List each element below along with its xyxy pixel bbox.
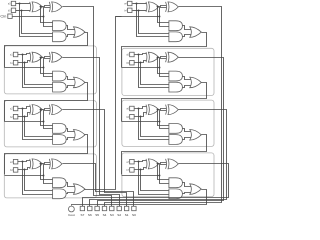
wire B2 to XOR — [18, 113, 31, 117]
output pin S3 — [110, 206, 114, 210]
wire AND2c out to OR — [67, 129, 77, 132]
wire XOR3a out to XOR3b — [41, 163, 51, 164]
output pin S6 — [88, 206, 92, 210]
AND gate U5c — [169, 71, 183, 81]
wire XOR1a out to XOR1b — [41, 57, 51, 58]
wire AND4c out to OR — [183, 26, 193, 30]
wire A7 to XOR — [135, 161, 147, 162]
wire XOR3a out branch to AND1 — [41, 164, 54, 180]
XOR gate U1a (A xor B) — [29, 52, 32, 62]
wire carry-in bit3 — [5, 175, 44, 177]
OR gate U3e (carry out) — [74, 184, 86, 195]
XOR gate U3b (sum S3) — [48, 159, 51, 169]
input pin A6 — [130, 106, 135, 111]
OR gate U1e (carry out) — [74, 77, 86, 88]
wire sum S3 bit3 — [63, 164, 134, 207]
wire A3 to XOR — [18, 161, 31, 162]
wire sum S2 bit2 — [63, 110, 127, 207]
wire B3 branch to AND2 — [25, 170, 54, 191]
wire B7 branch to AND2 — [141, 170, 170, 191]
input pin B3 — [13, 168, 18, 173]
output pin S0 — [132, 206, 136, 210]
OR gate U0e (carry out) — [74, 27, 86, 38]
wire AND3c out to OR — [67, 183, 77, 187]
wire carry bit5 to bit6 — [122, 83, 207, 122]
input pin A1 — [13, 52, 18, 57]
wire AND0c out to OR — [67, 26, 77, 30]
wire sum S4 bit4 — [105, 7, 222, 207]
wire carry-in to AND1 — [44, 176, 54, 184]
wire XOR2a out branch to AND1 — [41, 110, 54, 126]
input pin B0 — [11, 8, 15, 12]
wire carry bit4 to bit5 — [122, 33, 207, 68]
wire A2 to XOR — [18, 107, 31, 109]
AND gate U0c — [53, 21, 67, 31]
AND gate U7d — [169, 189, 183, 199]
wire AND7d out to OR — [183, 193, 193, 194]
svg-text:S2: S2 — [117, 213, 121, 217]
wire carry bit0 to bit1 — [5, 33, 88, 68]
input pin A4 — [128, 1, 132, 5]
input pin A3 — [13, 159, 18, 164]
XOR gate U0a (A xor B) — [29, 2, 32, 12]
wire carry-in to AND1 — [160, 176, 170, 184]
wire B3 to XOR — [18, 168, 31, 170]
wire B5 to XOR — [135, 61, 147, 63]
wire sum S6 bit6 — [90, 110, 227, 207]
XOR gate U3a (A xor B) — [29, 159, 32, 169]
input pin B5 — [130, 60, 135, 64]
input pin B7 — [130, 168, 135, 173]
input pin A2 — [13, 106, 18, 111]
input pin B1 — [13, 60, 18, 64]
wire AND4d out to OR — [183, 35, 193, 37]
wire A1 branch to AND2 — [23, 55, 54, 88]
wire carry-in to XOR7b — [160, 165, 167, 176]
wire AND5c out to OR — [183, 77, 193, 80]
wire A6 branch to AND2 — [139, 109, 170, 140]
XOR gate U7b (sum S7) — [165, 159, 168, 169]
wire XOR6a out branch to AND1 — [158, 110, 170, 126]
wire sum S1 bit1 — [63, 58, 120, 207]
wire A5 branch to AND2 — [139, 55, 170, 88]
XOR gate U1b (sum S1) — [48, 52, 51, 62]
XOR gate U6a (A xor B) — [145, 105, 148, 115]
wire AND6c out to OR — [183, 129, 193, 132]
OR gate U4e (carry out) — [190, 27, 202, 38]
wire AND1c out to OR — [67, 77, 77, 80]
wire B0 to XOR — [16, 10, 31, 12]
full-adder subcircuit frame row2 col1 — [4, 46, 96, 94]
wire XOR0a out branch to AND1 — [41, 7, 54, 23]
wire B6 to XOR — [135, 113, 147, 117]
wire A3 branch to AND2 — [23, 162, 54, 195]
AND gate U2c — [53, 124, 67, 134]
AND gate U1c — [53, 71, 67, 81]
wire carry bit1 to bit2 — [5, 83, 88, 122]
wire XOR4a out to XOR4b — [158, 6, 167, 7]
input pin A5 — [130, 52, 135, 57]
full-adder subcircuit frame row4 col2 — [122, 153, 214, 197]
wire XOR4a out branch to AND1 — [158, 7, 170, 23]
wire carry-in bit1 — [5, 67, 44, 69]
XOR gate U4b (sum S4) — [165, 2, 168, 12]
wire B1 branch to AND2 — [25, 63, 54, 85]
svg-text:S3: S3 — [110, 213, 114, 217]
wire carry-in to XOR1b — [44, 59, 51, 68]
svg-text:Cout: Cout — [68, 213, 75, 217]
wire carry-in to XOR0b — [44, 8, 51, 17]
wire AND1d out to OR — [67, 86, 77, 88]
wire B6 branch to AND2 — [141, 117, 170, 137]
AND gate U6d — [169, 135, 183, 145]
AND gate U2d — [53, 135, 67, 145]
wire A7 branch to AND2 — [139, 162, 170, 195]
full-adder subcircuit frame row3 col2 — [122, 100, 214, 146]
output pin S1 — [124, 206, 128, 210]
input pin B4 — [128, 8, 132, 12]
svg-text:Cin: Cin — [0, 14, 6, 19]
wire XOR2a out to XOR2b — [41, 109, 51, 110]
wire AND3d out to OR — [67, 193, 77, 194]
wire XOR7a out branch to AND1 — [158, 164, 170, 180]
wire carry-in to XOR2b — [44, 111, 51, 122]
wire AND2d out to OR — [67, 138, 77, 140]
wire carry bit2 to bit3 — [5, 135, 88, 175]
svg-text:S0: S0 — [132, 213, 136, 217]
svg-text:S7: S7 — [81, 213, 85, 217]
svg-text:S4: S4 — [103, 213, 107, 217]
wire carry-in to AND1 — [44, 17, 54, 27]
wire A5 to XOR — [135, 54, 147, 55]
XOR gate U7a (A xor B) — [145, 159, 148, 169]
wire AND6d out to OR — [183, 138, 193, 140]
wire sum S5 bit5 — [98, 58, 224, 207]
wire sum S7 bit7 — [83, 164, 229, 207]
wire carry-in to XOR4b — [160, 8, 167, 17]
wire XOR5a out branch to AND1 — [158, 58, 170, 74]
wire A4 branch to AND2 — [137, 4, 170, 37]
AND gate U4d — [169, 32, 183, 42]
wire carry-in bit0 — [13, 16, 44, 18]
input pin B2 — [13, 114, 18, 119]
AND gate U0d — [53, 32, 67, 42]
AND gate U7c — [169, 178, 183, 188]
OR gate U2e (carry out) — [74, 130, 86, 141]
wire B0 branch to AND2 — [22, 11, 54, 34]
wire carry-in to XOR3b — [44, 165, 51, 176]
wire B7 to XOR — [135, 168, 147, 170]
wire B5 branch to AND2 — [141, 63, 170, 85]
wire AND7c out to OR — [183, 183, 193, 187]
input pin A7 — [130, 159, 135, 164]
AND gate U3d — [53, 189, 67, 199]
wire Cout — [72, 190, 207, 206]
wire carry-in bit5 — [122, 67, 160, 69]
wire carry-in bit7 — [122, 175, 160, 177]
wire XOR0a out to XOR0b — [41, 6, 51, 7]
OR gate U5e (carry out) — [190, 77, 202, 88]
wire XOR1a out branch to AND1 — [41, 58, 54, 74]
wire carry-in to XOR5b — [160, 59, 167, 68]
wire A4 to XOR — [133, 3, 147, 5]
XOR gate U4a (A xor B) — [145, 2, 148, 12]
svg-text:S1: S1 — [125, 213, 129, 217]
full-adder subcircuit frame row3 col1 — [4, 101, 96, 147]
XOR gate U5b (sum S5) — [165, 52, 168, 62]
output pin S4 — [102, 206, 106, 210]
wire carry bit6 to bit7 — [122, 135, 207, 175]
AND gate U1d — [53, 82, 67, 92]
input pin B6 — [130, 114, 135, 119]
wire A6 to XOR — [135, 107, 147, 109]
svg-text:S6: S6 — [88, 213, 92, 217]
input pin Cin — [8, 14, 12, 18]
svg-text:S5: S5 — [95, 213, 99, 217]
AND gate U6c — [169, 124, 183, 134]
wire carry-in bit4 — [116, 16, 160, 18]
wire carry-in to AND1 — [160, 17, 170, 27]
XOR gate U2a (A xor B) — [29, 105, 32, 115]
wire B2 branch to AND2 — [25, 117, 54, 137]
input pin A0 — [11, 1, 15, 5]
output pin S7 — [80, 206, 84, 210]
wire A1 to XOR — [18, 54, 31, 55]
full-adder subcircuit frame row2 col2 — [122, 48, 214, 95]
XOR gate U5a (A xor B) — [145, 52, 148, 62]
wire carry-in to AND1 — [160, 122, 170, 129]
wire carry bit3 to bit4 — [85, 17, 122, 190]
wire sum S0 bit0 — [63, 7, 112, 207]
wire B4 branch to AND2 — [139, 11, 170, 34]
wire AND0d out to OR — [67, 35, 77, 37]
wire carry-in to AND1 — [160, 68, 170, 77]
wire XOR6a out to XOR6b — [158, 109, 167, 110]
wire A2 branch to AND2 — [23, 109, 54, 140]
output pin S5 — [95, 206, 99, 210]
wire B4 to XOR — [133, 10, 147, 12]
output pin Cout — [69, 206, 75, 212]
AND gate U5d — [169, 82, 183, 92]
wire carry-in to AND1 — [44, 122, 54, 129]
AND gate U4c — [169, 21, 183, 31]
XOR gate U6b (sum S6) — [165, 105, 168, 115]
wire A0 branch to AND2 — [20, 4, 54, 37]
wire B1 to XOR — [18, 61, 31, 63]
OR gate U6e (carry out) — [190, 130, 202, 141]
wire carry-in bit6 — [122, 121, 160, 123]
wire carry-in to AND1 — [44, 68, 54, 77]
wire carry-in to XOR6b — [160, 111, 167, 122]
output pin S2 — [117, 206, 121, 210]
wire XOR5a out to XOR5b — [158, 57, 167, 58]
wire AND5d out to OR — [183, 86, 193, 88]
wire XOR7a out to XOR7b — [158, 163, 167, 164]
OR gate U7e (carry out) — [190, 184, 202, 195]
XOR gate U0b (sum S0) — [48, 2, 51, 12]
XOR gate U2b (sum S2) — [48, 105, 51, 115]
AND gate U3c — [53, 178, 67, 188]
wire A0 to XOR — [16, 3, 31, 5]
full-adder subcircuit frame row4 col1 — [4, 154, 96, 198]
wire carry-in bit2 — [5, 121, 44, 123]
